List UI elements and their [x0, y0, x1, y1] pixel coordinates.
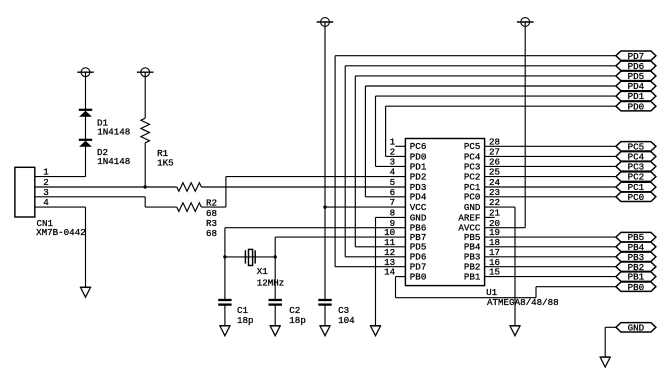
capacitor C1	[218, 300, 231, 305]
wire PD7 vertical	[334, 56, 336, 267]
wire C1 top lead	[224, 257, 226, 300]
wire PB0 to flag	[536, 286, 616, 288]
wire C1 bottom lead	[224, 305, 226, 326]
wire PD1 vertical	[375, 96, 377, 166]
wire IC pin8 GND	[376, 216, 406, 218]
svg-text:18p: 18p	[237, 315, 254, 326]
wire PC0 to flag	[485, 196, 616, 198]
crystal X1	[245, 249, 255, 265]
net flag PC2	[616, 172, 656, 183]
wire PD0 horizontal to flag	[386, 105, 616, 107]
svg-text:XM7B-0442: XM7B-0442	[36, 227, 86, 238]
net flag PB2	[616, 262, 656, 273]
wire U1 pin14 PB0	[396, 276, 406, 278]
svg-text:18p: 18p	[289, 315, 306, 326]
net flag PC3	[616, 162, 656, 173]
svg-text:1N4148: 1N4148	[97, 127, 130, 138]
wire PD4 to IC	[365, 196, 405, 198]
wire CN1 pin4 ground net	[35, 206, 86, 208]
net flag PC1	[616, 182, 656, 193]
wire U1 pin22 GND	[485, 206, 515, 208]
wire PB0 riser	[535, 287, 537, 298]
wire PD7 to IC	[335, 266, 405, 268]
wire XTAL1 drop	[224, 228, 226, 257]
power VCC P2	[137, 68, 154, 77]
ground under C3	[319, 326, 330, 336]
net flag PC0	[616, 192, 656, 203]
svg-text:PB0: PB0	[628, 282, 645, 293]
ground under pin8	[370, 326, 381, 336]
wire PB0 under IC	[396, 297, 537, 299]
wire CN1 pin1 to diode column	[35, 176, 86, 178]
wire R2 to IC pin5	[201, 186, 405, 188]
svg-text:4: 4	[390, 167, 396, 178]
junction crystal left / C1	[223, 255, 226, 258]
wire GND flag stub	[605, 326, 616, 328]
wire C3 top lead	[324, 207, 326, 300]
ground under C2	[270, 326, 281, 336]
net flag GND	[616, 322, 656, 333]
wire PB2 to flag	[485, 266, 616, 268]
svg-text:14: 14	[384, 267, 396, 278]
wire R3 jog up	[225, 177, 227, 208]
wire AVCC riser to VCC P4	[524, 22, 526, 228]
op IC U1 body	[405, 139, 484, 286]
svg-text:GND: GND	[628, 322, 645, 333]
power VCC P1	[77, 68, 94, 77]
capacitor C3	[318, 300, 331, 305]
wire pin8 GND drop	[375, 217, 377, 325]
junction crystal right / C2	[274, 255, 277, 258]
wire C2 bottom lead	[274, 305, 276, 326]
junction R1 / D- net	[144, 185, 147, 188]
svg-text:X1: X1	[257, 266, 269, 277]
resistor R1	[141, 118, 150, 143]
svg-text:PD0: PD0	[628, 101, 645, 112]
wire C2 top lead	[274, 257, 276, 300]
svg-text:12MHz: 12MHz	[257, 277, 285, 288]
wire PD5 vertical	[354, 76, 356, 247]
wire IC pin10 XTAL2	[275, 236, 405, 238]
wire PB4 to flag	[485, 246, 616, 248]
wire PD1 to IC	[376, 165, 406, 167]
wire C3 bottom lead	[324, 305, 326, 326]
wire PC2 to flag	[485, 176, 616, 178]
wire PC3 to flag	[485, 165, 616, 167]
net flag PB3	[616, 252, 656, 263]
wire CN1 pin3 jog down	[144, 197, 146, 207]
wire PC1 to flag	[485, 186, 616, 188]
diode D2	[79, 140, 92, 147]
svg-text:1N4148: 1N4148	[97, 156, 130, 167]
svg-text:68: 68	[206, 228, 217, 239]
net flag PD1	[616, 91, 656, 102]
net flag PD5	[616, 71, 656, 82]
wire VCC P1 down through diodes to CN1 pin1	[85, 72, 87, 176]
wire PD4 horizontal to flag	[365, 85, 616, 87]
wire R3 lead	[201, 206, 226, 208]
net flag PB0	[616, 282, 656, 293]
svg-text:ATMEGA8/48/88: ATMEGA8/48/88	[487, 297, 559, 308]
net flag PD0	[616, 101, 656, 112]
wire CN1 pin2 D- net to R2	[35, 186, 177, 188]
net flag PC4	[616, 152, 656, 163]
diode D1	[79, 110, 92, 117]
net flag PD7	[616, 51, 656, 62]
junction VCC / C3	[323, 205, 326, 208]
wire PB5 to flag	[485, 236, 616, 238]
stub U1 pin1 PC6	[395, 145, 405, 147]
wire VCC P2 down to R1	[144, 72, 146, 118]
stub U1 pin21 AREF	[485, 216, 495, 218]
capacitor C2	[269, 300, 282, 305]
svg-text:PC0: PC0	[628, 192, 645, 203]
wire XTAL2 drop	[274, 237, 276, 257]
resistor R3	[177, 203, 202, 212]
wire R1 to D- net	[144, 143, 146, 187]
wire PD6 vertical	[344, 66, 346, 257]
wire PD5 horizontal to flag	[355, 75, 616, 77]
wire PB3 to flag	[485, 256, 616, 258]
svg-text:R3: R3	[206, 218, 217, 229]
wire PB0 drop	[395, 277, 397, 298]
ground under CN1	[80, 287, 91, 297]
wire PC5 to flag	[485, 145, 616, 147]
wire jog to IC pin4	[226, 176, 406, 178]
svg-text:PD2: PD2	[410, 172, 427, 183]
wire PD6 to IC	[345, 256, 405, 258]
wire VCC P3 drop	[324, 22, 326, 207]
power VCC P3	[317, 18, 334, 27]
wire PD6 horizontal to flag	[345, 65, 616, 67]
wire PD4 vertical	[364, 86, 366, 197]
ground under pin22	[509, 326, 520, 336]
wire PC4 to flag	[485, 155, 616, 157]
svg-text:PB0: PB0	[410, 272, 427, 283]
wire PB1 to flag	[485, 276, 616, 278]
svg-text:PB1: PB1	[464, 272, 481, 283]
wire GND flag drop	[604, 327, 606, 357]
wire IC pin9 XTAL1	[225, 227, 406, 229]
wire PD7 horizontal to flag	[335, 55, 616, 57]
wire CN1 pin4 drop to ground	[85, 207, 87, 287]
svg-text:PC2: PC2	[628, 172, 645, 183]
connector CN1	[15, 167, 35, 217]
wire CN1 pin3 to R3	[145, 206, 177, 208]
wire PD0 to IC	[386, 155, 406, 157]
svg-text:PC2: PC2	[464, 172, 481, 183]
wire CN1 pin3 D+ net	[35, 196, 145, 198]
net flag PC5	[616, 141, 656, 152]
ground under GND flag	[600, 357, 611, 367]
net flag PB1	[616, 272, 656, 283]
svg-text:104: 104	[338, 315, 355, 326]
wire pin22 GND drop	[514, 207, 516, 326]
wire VCC to IC pin7	[325, 206, 405, 208]
wire crystal row	[225, 256, 275, 258]
power VCC P4	[517, 18, 534, 27]
wire PD0 vertical	[385, 106, 387, 156]
wire PD1 horizontal to flag	[376, 95, 616, 97]
net flag PD4	[616, 81, 656, 92]
resistor R2	[177, 183, 202, 192]
wire PD5 to IC	[355, 246, 405, 248]
net flag PD6	[616, 61, 656, 72]
net flag PB4	[616, 242, 656, 253]
ground under C1	[219, 326, 230, 336]
wire U1 pin20 AVCC	[485, 227, 526, 229]
net flag PB5	[616, 232, 656, 243]
svg-text:1K5: 1K5	[157, 158, 174, 169]
